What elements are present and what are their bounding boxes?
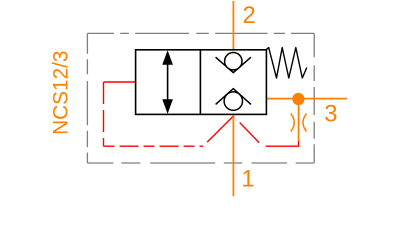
model label NCS12/3 (rotated) <box>49 51 72 135</box>
svg-text:NCS12/3: NCS12/3 <box>49 51 72 135</box>
spring (zigzag) <box>266 48 307 78</box>
port 3 line (orange horizontal) <box>266 98 347 100</box>
svg-text:2: 2 <box>243 2 256 29</box>
pilot line segment (red dashed, left diagonal to port 1) <box>203 116 233 146</box>
orifice restriction (two facing arcs) <box>291 114 307 132</box>
enclosure boundary bottom edge (gray dashed) <box>87 162 314 164</box>
pilot line segment (red, valve body to left) <box>104 81 136 83</box>
port 3 label <box>324 101 337 128</box>
enclosure boundary left edge (gray dashed) <box>86 33 88 163</box>
pilot line segment (red dashed, right diagonal and run to orifice) <box>233 116 298 146</box>
enclosure boundary right edge (gray dashed) <box>313 33 315 163</box>
port 1 line (orange) <box>232 114 234 196</box>
valve body box <box>136 50 267 115</box>
pilot line segment (red dashed, bottom horizontal) <box>104 145 204 147</box>
enclosure boundary top edge (gray dashed) <box>87 32 314 34</box>
junction node dot <box>292 93 304 105</box>
port 2 line (orange) <box>232 1 234 50</box>
port 1 label <box>241 166 254 193</box>
valve body divider <box>199 50 201 115</box>
svg-text:3: 3 <box>324 101 337 128</box>
check valve CV1 (top, ball on seat) <box>216 53 251 73</box>
orange branch from node down to orifice <box>298 99 300 141</box>
port 2 label <box>243 2 256 29</box>
flow control double arrow <box>162 50 173 114</box>
pilot line segment (red dashed, left vertical) <box>103 82 105 146</box>
svg-text:1: 1 <box>241 166 254 193</box>
check valve CV2 (bottom, ball under seat) <box>216 89 251 111</box>
